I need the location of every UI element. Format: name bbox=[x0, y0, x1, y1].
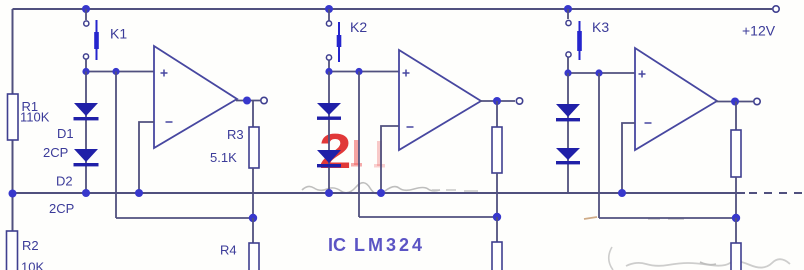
wire: tap 3 to R8 bbox=[735, 218, 737, 243]
junction: divider tap 3 bbox=[732, 214, 740, 222]
label IC LM324 bbox=[328, 235, 425, 255]
net 2CP rail dashed end bbox=[749, 192, 802, 194]
junction: divider tap 2 bbox=[493, 213, 501, 221]
svg-text:K2: K2 bbox=[350, 19, 367, 35]
wire: diode chain D3-D4 bbox=[328, 72, 330, 194]
svg-text:R2: R2 bbox=[22, 238, 39, 253]
junction: feedback 2 to 2CP rail bbox=[377, 189, 385, 197]
resistor R6 bbox=[492, 242, 502, 270]
pin - (U1B) bbox=[407, 126, 414, 128]
terminal: stage 2 output bbox=[516, 98, 522, 104]
wire: +12V top rail bbox=[13, 8, 773, 10]
svg-text:IC: IC bbox=[328, 235, 346, 255]
resistor R3 bbox=[249, 127, 259, 168]
svg-text:110K: 110K bbox=[20, 110, 50, 125]
wire: output node to R7 bbox=[735, 102, 737, 131]
wire: R5 to divider tap 2 bbox=[496, 173, 498, 217]
resistor R8 bbox=[731, 243, 741, 270]
terminal: +12V supply bbox=[773, 6, 779, 12]
junction: top rail to K3 bbox=[564, 5, 572, 13]
resistor R2 bbox=[7, 231, 18, 270]
op-amp U1C bbox=[635, 48, 717, 150]
wire: R3 to divider tap bbox=[252, 168, 254, 218]
junction: K3 / diode chain node bbox=[564, 69, 571, 76]
junction: feedback 3 to 2CP rail bbox=[618, 189, 626, 197]
junction: rail to left bus bbox=[9, 190, 17, 198]
terminal: stage 3 output bbox=[754, 98, 760, 104]
switch K1 bbox=[83, 20, 98, 60]
svg-text:R4: R4 bbox=[220, 243, 237, 258]
diode D6 bbox=[556, 148, 580, 164]
wire: R7 to divider tap 3 bbox=[735, 177, 737, 218]
resistor R1 bbox=[8, 94, 19, 140]
svg-text:K1: K1 bbox=[110, 26, 127, 42]
junction: top rail to K1 bbox=[82, 5, 90, 13]
wire: K3 to noninverting input bbox=[568, 58, 635, 74]
junction: divider tap 1 bbox=[249, 214, 257, 222]
wire: tap 2 to R6 bbox=[496, 217, 498, 242]
wire: K2 to noninverting input bbox=[329, 61, 399, 72]
svg-text:5.1K: 5.1K bbox=[210, 150, 237, 165]
resistor R4 bbox=[249, 243, 259, 270]
wire: divider tap link 2 bbox=[359, 216, 497, 218]
resistor R5 bbox=[492, 127, 502, 173]
pin + (U1A) bbox=[161, 70, 168, 77]
terminal: stage 1 output bbox=[261, 97, 267, 103]
svg-text:10K: 10K bbox=[21, 260, 44, 270]
junction: top rail to K2 bbox=[325, 5, 333, 13]
wire: diode chain D5-D6 bbox=[567, 73, 569, 193]
junction: K2 / diode chain node bbox=[325, 68, 332, 75]
wire: node A1 to divider tap bbox=[115, 72, 117, 219]
pin + (U1B) bbox=[403, 70, 410, 77]
junction: noninverting node A3 bbox=[595, 69, 602, 76]
net 2CP rail bbox=[13, 192, 746, 194]
junction: diode chain to 2CP rail bbox=[82, 189, 90, 197]
svg-text:R3: R3 bbox=[227, 127, 244, 142]
wire: inverting input feedback bbox=[139, 122, 154, 193]
svg-text:K3: K3 bbox=[592, 19, 609, 35]
junction: output node 3 bbox=[731, 98, 739, 106]
wire: rail to K3 bbox=[567, 9, 569, 19]
svg-text:D2: D2 bbox=[56, 174, 73, 189]
pin - (U1A) bbox=[166, 121, 173, 123]
diode D2 bbox=[74, 149, 99, 166]
svg-text:2CP: 2CP bbox=[49, 201, 74, 216]
svg-text:2CP: 2CP bbox=[43, 145, 68, 160]
junction: K1 / diode chain node bbox=[82, 68, 89, 75]
wire: inverting feedback 2 bbox=[381, 126, 399, 193]
junction: noninverting node A2 bbox=[355, 68, 362, 75]
pin - (U1C) bbox=[645, 122, 652, 124]
diode D5 bbox=[556, 104, 580, 121]
junction: diode chain 2 to 2CP rail bbox=[325, 189, 333, 197]
wire: inverting feedback 3 bbox=[622, 123, 635, 193]
wire: divider tap link 1 bbox=[116, 217, 252, 219]
pin + (U1C) bbox=[639, 71, 646, 78]
wire: tap to R4 bbox=[252, 218, 254, 243]
svg-text:LM324: LM324 bbox=[354, 235, 425, 255]
wire: divider tap link 3 bbox=[599, 217, 736, 219]
wire: U1A output bbox=[236, 100, 260, 102]
wire: diode chain D1-D2 bbox=[85, 72, 87, 194]
diode D3 bbox=[317, 103, 341, 120]
junction: noninverting node A1 bbox=[112, 68, 119, 75]
wire: output node to R3 bbox=[252, 101, 254, 128]
wire: output node to R5 bbox=[496, 101, 498, 127]
wire: node A2 to divider tap bbox=[358, 72, 360, 218]
junction: feedback to 2CP rail bbox=[135, 189, 143, 197]
switch K2 bbox=[326, 21, 341, 62]
wire: left vertical bus bbox=[12, 9, 14, 270]
wire: U1B output bbox=[480, 100, 515, 102]
resistor R7 bbox=[731, 130, 741, 177]
wire: K1 to noninverting input bbox=[86, 60, 154, 72]
junction: output node 1 bbox=[243, 97, 251, 105]
svg-text:+12V: +12V bbox=[742, 23, 776, 39]
diode D1 bbox=[74, 103, 99, 120]
junction: output node 2 bbox=[493, 97, 501, 105]
op-amp U1B bbox=[399, 50, 481, 150]
diode D4 bbox=[317, 150, 341, 167]
wire: U1C output bbox=[716, 101, 753, 103]
wire: rail to K2 bbox=[328, 9, 330, 21]
wire: rail to K1 bbox=[85, 9, 87, 20]
svg-text:D1: D1 bbox=[57, 126, 74, 141]
switch K3 bbox=[566, 20, 582, 60]
op-amp U1A bbox=[154, 46, 237, 148]
wire: node A3 to divider tap bbox=[598, 73, 600, 218]
